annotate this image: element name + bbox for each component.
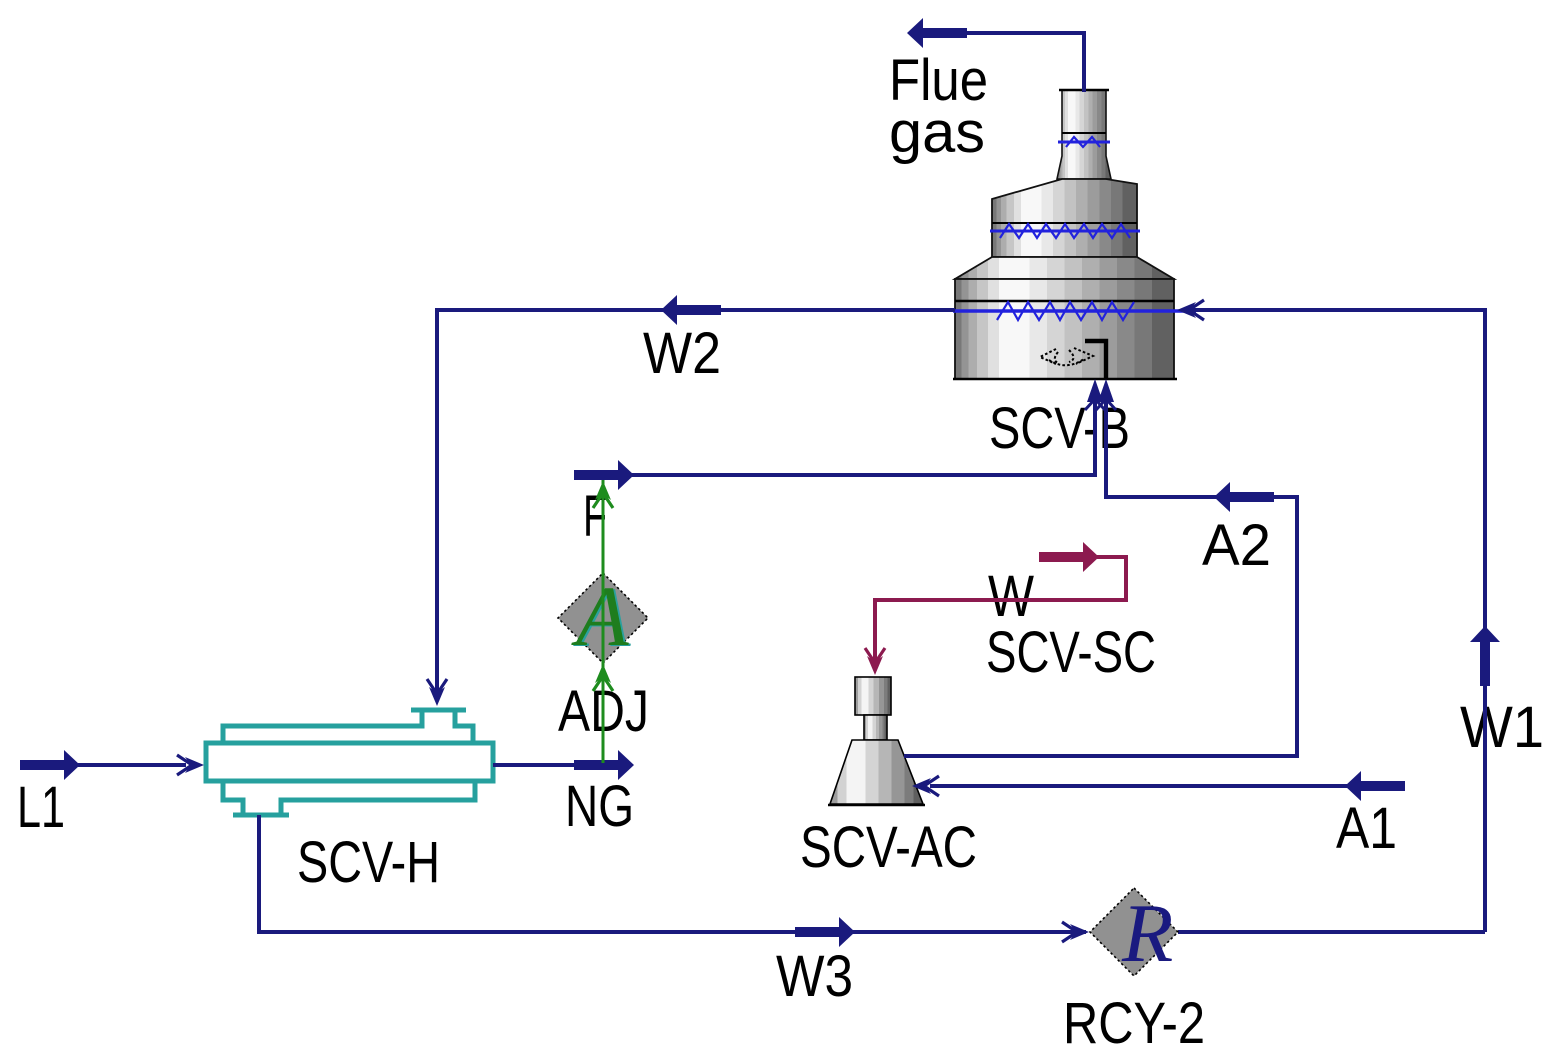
dest arrow into vessel bottom from A2 (1096, 379, 1116, 410)
zigzag bottom tier + stream line through vessel (953, 302, 1196, 320)
wire NG from heat exchanger (493, 763, 576, 767)
thick arrow W2 (points left) (661, 295, 721, 325)
recycle block RCY-2 diamond (1090, 888, 1178, 976)
vessel SCV-B stack (1057, 90, 1111, 179)
wire F to vessel bottom (632, 400, 1095, 475)
thick arrow flue gas (points left) (907, 18, 967, 48)
vessel SCV-B middle tier (992, 179, 1137, 257)
zigzag stack (1058, 137, 1110, 147)
dest arrow into vessel bottom from F (1085, 379, 1105, 410)
wire W2: vessel left to heat exchanger top nozzle (437, 310, 955, 700)
heat exchanger SCV-H bottom shell and nozzle (223, 779, 475, 814)
thick arrow L1 feed (points right) (20, 750, 80, 780)
dest arrow into vessel right side from W1 (1177, 300, 1204, 320)
green arrow into ADJ diamond (593, 664, 613, 691)
adjust block ADJ diamond (558, 573, 648, 663)
heat exchanger SCV-H top shell and nozzle (223, 711, 473, 745)
svg-text:NG: NG (565, 774, 634, 839)
wire RCY-2 outlet to riser (1178, 930, 1485, 934)
dest arrow into RCY-2 from W3 (1062, 922, 1089, 942)
compressor SCV-AC neck (864, 715, 887, 740)
energy stream W (crimson) (875, 557, 1126, 662)
dest arrow into compressor from A1 (912, 776, 939, 796)
svg-text:L1: L1 (17, 775, 65, 840)
thick arrow NG product (points right) (574, 750, 634, 780)
thick arrow A1 feed (points left) (1345, 771, 1405, 801)
svg-text:SCV-AC: SCV-AC (800, 815, 977, 880)
vessel SCV-B shoulder (955, 257, 1174, 279)
svg-text:W1: W1 (1460, 695, 1544, 760)
green arrow toward F (593, 481, 613, 508)
heat exchanger SCV-H main tube rectangle (206, 743, 493, 781)
adjust connection (green) (602, 480, 605, 763)
thick arrow W1 (points up) (1470, 626, 1500, 686)
wire ADJ green link NG to F (602, 480, 605, 763)
svg-text:W3: W3 (776, 944, 853, 1009)
thick arrow W feed (points right) (1039, 542, 1099, 572)
thick arrow A2 (points left) (1214, 482, 1274, 512)
wire flue gas line from stack top (966, 33, 1084, 92)
compressor SCV-AC motor cylinder (855, 677, 891, 715)
wire W1 riser and top run to vessel (1192, 310, 1485, 932)
compressor SCV-AC cone (830, 740, 923, 804)
svg-text:SCV-B: SCV-B (989, 396, 1130, 461)
thick arrow W3 (points right) (795, 917, 855, 947)
zigzag middle tier (990, 224, 1140, 238)
svg-text:A2: A2 (1202, 513, 1271, 578)
wire W3: heat exchanger bottom nozzle to RCY-2 (259, 815, 1086, 932)
svg-text:R: R (1121, 887, 1173, 980)
svg-text:gas: gas (889, 100, 985, 165)
burner fuel elbow pipe (1085, 341, 1106, 379)
wire L1 to heat exchanger (78, 763, 186, 767)
dest arrow into heat exchanger top nozzle from W2 (427, 679, 447, 706)
dest arrow into heat exchanger from L1 (177, 755, 204, 775)
svg-text:SCV-H: SCV-H (297, 830, 440, 895)
svg-text:RCY-2: RCY-2 (1063, 991, 1205, 1056)
dest arrow into compressor top from W (865, 648, 885, 675)
wire A1 to compressor (930, 784, 1347, 788)
svg-text:W2: W2 (643, 321, 721, 386)
thick arrow F (points right) (574, 460, 634, 490)
svg-text:A1: A1 (1336, 796, 1397, 861)
svg-text:A: A (571, 568, 629, 664)
burner symbol inside SCV-B (1040, 348, 1093, 365)
vessel SCV-B bottom tier (953, 279, 1177, 379)
svg-text:SCV-SC: SCV-SC (986, 620, 1156, 685)
wire A2: compressor discharge to vessel bottom (904, 400, 1297, 756)
wire W to compressor (875, 557, 1126, 662)
